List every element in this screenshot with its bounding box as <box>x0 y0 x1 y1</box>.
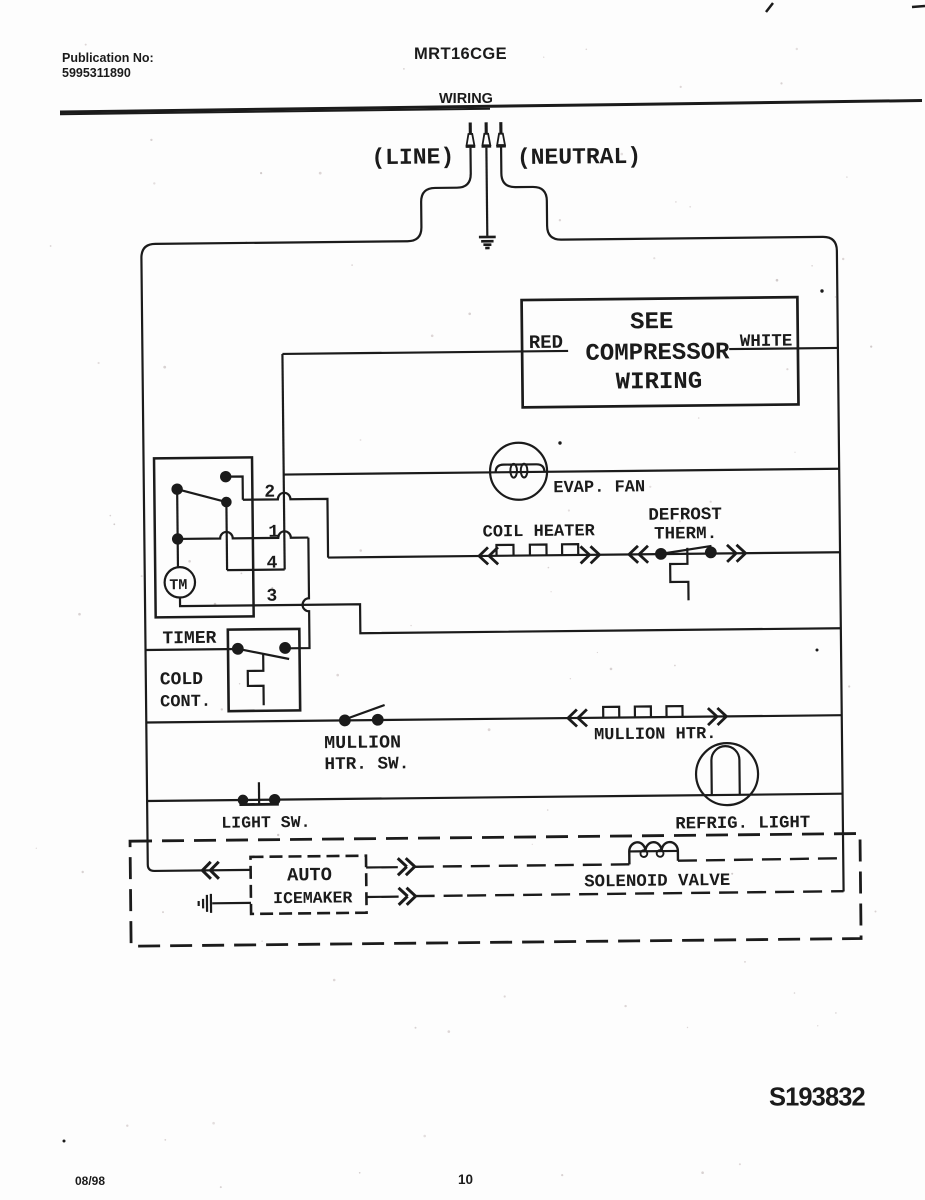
icemaker top right connector chevrons <box>398 858 415 875</box>
header horizontal rule <box>60 101 922 113</box>
light switch contact dot left <box>239 796 247 804</box>
timer pivot contact dot <box>222 498 230 506</box>
wire: icemaker ground lead <box>212 902 251 905</box>
mullion heater right connector chevrons <box>708 708 727 725</box>
wire: evaporator fan row <box>284 469 839 475</box>
svg-text:WIRING: WIRING <box>616 369 703 397</box>
light switch bridge bar <box>239 803 278 806</box>
svg-text:EVAP. FAN: EVAP. FAN <box>553 478 645 498</box>
wire: mullion heater row <box>146 715 841 722</box>
defrost thermostat sensing element zigzag <box>670 548 689 601</box>
light switch stem <box>258 782 260 804</box>
scan artifact dots <box>820 289 823 292</box>
wire: terminal 1 row with crossover hops <box>178 531 309 539</box>
solenoid valve coil <box>629 842 678 864</box>
wire: icemaker bottom dashed return to right bus <box>416 891 844 896</box>
mullion heater left connector chevrons <box>568 709 587 726</box>
solenoid valve coil baseline <box>629 850 678 853</box>
defrost thermostat blade <box>661 546 712 554</box>
svg-text:Publication No:: Publication No: <box>62 51 154 65</box>
svg-text:REFRIG. LIGHT: REFRIG. LIGHT <box>675 814 810 834</box>
mullion switch contact dot left <box>340 716 350 726</box>
defrost thermostat left connector chevrons <box>629 546 648 563</box>
cold control box <box>228 629 300 711</box>
scan artifact marks top right <box>766 3 925 12</box>
svg-text:MULLION HTR.: MULLION HTR. <box>594 725 717 745</box>
cold control blade <box>238 648 289 659</box>
svg-text:COIL HEATER: COIL HEATER <box>483 522 596 542</box>
wire: terminal 4 link <box>227 568 285 571</box>
svg-text:MULLION: MULLION <box>324 733 401 754</box>
defrost thermostat contact dot left <box>656 549 666 559</box>
mullion heater element <box>603 706 682 718</box>
svg-text:5995311890: 5995311890 <box>62 66 131 80</box>
evap fan winding loop 2 <box>521 464 528 478</box>
wire: refrigerator light row <box>147 794 842 801</box>
solenoid valve coil loop 1 <box>640 850 647 857</box>
svg-text:DEFROST: DEFROST <box>648 505 722 526</box>
cold control contact dot right <box>280 643 290 653</box>
icemaker left connector chevrons <box>202 862 219 879</box>
evap fan motor winding symbol <box>496 464 545 472</box>
wire: junction dot down to TM <box>177 539 179 567</box>
timer motor TM circle <box>164 567 195 598</box>
timer wire common vertical <box>176 489 179 539</box>
wire: main vertical feed (red junction down to timer terminal 4) <box>282 354 284 570</box>
timer junction dot <box>173 534 182 543</box>
svg-text:3: 3 <box>266 587 277 607</box>
wire: TM bottom to terminal 3 <box>180 591 841 636</box>
wire: coil heater / defrost row <box>328 552 840 557</box>
wire: terminal 2 row with crossover hop <box>243 492 328 558</box>
wire: solenoid valve to right bus dashed <box>678 858 843 861</box>
svg-text:CONT.: CONT. <box>160 693 211 713</box>
timer internal vertical from pivot to terminal 4 <box>225 502 228 570</box>
svg-text:WIRING: WIRING <box>439 91 493 107</box>
mullion switch contact dot right <box>373 715 383 725</box>
wire: icemaker output top (solid part) <box>366 866 398 869</box>
svg-text:MRT16CGE: MRT16CGE <box>414 45 507 63</box>
compressor box SEE COMPRESSOR WIRING <box>522 297 799 407</box>
timer contact dot (common left) <box>172 485 181 494</box>
evap fan winding loop 1 <box>510 464 517 478</box>
refrigerator light bulb circle <box>696 743 759 806</box>
auto icemaker dashed box <box>250 856 366 914</box>
svg-text:TIMER: TIMER <box>162 629 216 650</box>
svg-text:SOLENOID VALVE: SOLENOID VALVE <box>584 872 730 893</box>
wire: icemaker output bottom (solid part) <box>366 896 398 899</box>
cold control contact dot left <box>233 644 243 654</box>
timer box <box>154 457 254 617</box>
svg-text:COMPRESSOR: COMPRESSOR <box>585 339 730 368</box>
defrost thermostat right connector chevrons <box>727 545 746 562</box>
svg-text:LIGHT SW.: LIGHT SW. <box>221 813 310 833</box>
wire: dashed solenoid valve feed <box>415 864 630 866</box>
wire: NEUTRAL prong lead S-curve to top-right corner and right bus <box>501 144 844 895</box>
svg-text:(LINE): (LINE) <box>371 144 454 171</box>
plug prong ground (middle) <box>481 122 491 146</box>
mullion switch blade <box>346 705 385 719</box>
svg-text:SEE: SEE <box>630 309 673 336</box>
refrigerator light filament loop <box>711 746 740 795</box>
ground symbol (power cord) <box>479 237 496 248</box>
wire: left bus to cold control <box>146 648 238 651</box>
svg-text:S193832: S193832 <box>769 1084 866 1112</box>
svg-text:AUTO: AUTO <box>287 864 332 886</box>
coil heater element <box>496 544 578 556</box>
wire: white lead from compressor box to right bus <box>729 348 838 349</box>
svg-text:10: 10 <box>458 1172 473 1187</box>
svg-text:ICEMAKER: ICEMAKER <box>273 888 353 908</box>
dashed icemaker compartment box <box>130 834 861 947</box>
plug prong NEUTRAL <box>496 122 506 146</box>
icemaker ground symbol <box>199 894 211 913</box>
light switch contact dot right <box>270 795 279 804</box>
svg-text:HTR. SW.: HTR. SW. <box>324 754 409 775</box>
wire: ground lead from middle prong <box>485 148 488 236</box>
svg-text:2: 2 <box>264 483 275 503</box>
coil heater right connector chevrons <box>580 546 599 563</box>
timer contact dot (terminal 2 side) <box>221 472 230 481</box>
svg-text:COLD: COLD <box>160 670 204 690</box>
defrost thermostat contact dot right <box>706 548 716 558</box>
wire: LINE prong lead S-curve to top-left corner and left bus <box>140 148 478 871</box>
svg-text:THERM.: THERM. <box>654 524 717 545</box>
timer wire from contact to terminal 2 <box>226 476 243 499</box>
svg-text:TM: TM <box>169 577 187 594</box>
wire: red lead into compressor box <box>282 351 568 354</box>
cold control sensing zigzag <box>248 654 264 705</box>
svg-text:08/98: 08/98 <box>75 1174 105 1188</box>
svg-text:4: 4 <box>267 554 278 574</box>
plug prong LINE <box>465 122 475 146</box>
solenoid valve coil loop 2 <box>657 850 664 857</box>
coil heater left connector chevrons <box>479 547 498 564</box>
svg-text:1: 1 <box>268 523 279 543</box>
svg-text:(NEUTRAL): (NEUTRAL) <box>517 144 641 171</box>
timer switch blade <box>177 489 226 503</box>
wire: terminal 1 drop to cold control with hop over wire 3 <box>287 538 310 649</box>
icemaker bottom right connector chevrons <box>399 888 416 905</box>
evap fan motor circle <box>490 442 548 500</box>
